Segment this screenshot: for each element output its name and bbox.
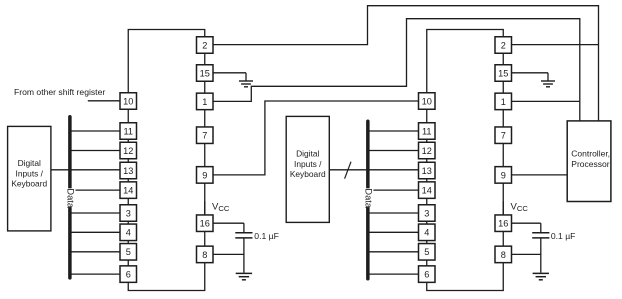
svg-text:2: 2 [202,40,207,50]
svg-text:Inputs /: Inputs / [294,159,322,169]
svg-text:1: 1 [202,97,207,107]
svg-text:5: 5 [126,247,131,257]
svg-text:13: 13 [123,166,133,176]
svg-text:9: 9 [501,170,506,180]
svg-text:6: 6 [126,270,131,280]
svg-text:Data: Data [65,188,75,208]
svg-text:8: 8 [202,250,207,260]
svg-text:Inputs /: Inputs / [16,168,44,178]
svg-text:VCC: VCC [212,201,230,213]
svg-text:8: 8 [501,250,506,260]
svg-text:14: 14 [422,186,432,196]
svg-text:14: 14 [123,186,133,196]
svg-text:Digital: Digital [18,158,41,168]
svg-text:15: 15 [498,68,508,78]
svg-text:VCC: VCC [511,201,529,213]
svg-text:12: 12 [422,146,432,156]
svg-text:3: 3 [126,208,131,218]
svg-text:11: 11 [123,126,133,136]
svg-text:6: 6 [424,270,429,280]
svg-text:16: 16 [498,219,508,229]
svg-text:12: 12 [123,146,133,156]
svg-text:Processor: Processor [571,159,609,169]
svg-text:Data: Data [363,188,373,208]
svg-text:Controller,: Controller, [571,148,610,158]
svg-text:16: 16 [200,219,210,229]
svg-text:0.1 µF: 0.1 µF [551,231,576,241]
svg-text:0.1 µF: 0.1 µF [254,231,279,241]
svg-text:7: 7 [501,131,506,141]
svg-text:2: 2 [501,40,506,50]
svg-text:5: 5 [424,247,429,257]
svg-text:4: 4 [126,228,131,238]
svg-text:15: 15 [200,68,210,78]
svg-text:13: 13 [422,166,432,176]
svg-text:9: 9 [202,170,207,180]
svg-text:From other shift register: From other shift register [14,87,105,97]
svg-text:10: 10 [422,96,432,106]
svg-text:1: 1 [501,97,506,107]
svg-text:4: 4 [424,228,429,238]
svg-text:3: 3 [424,208,429,218]
svg-text:Keyboard: Keyboard [11,179,47,189]
svg-text:10: 10 [123,96,133,106]
svg-text:Digital: Digital [296,149,319,159]
svg-text:Keyboard: Keyboard [290,169,326,179]
svg-text:7: 7 [202,131,207,141]
svg-text:11: 11 [422,126,432,136]
